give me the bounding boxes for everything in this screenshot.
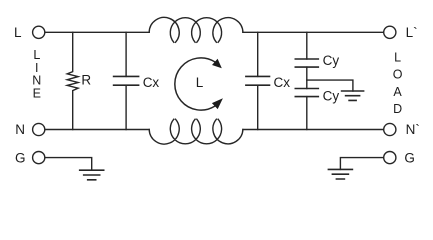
capacitor Cx right leads [257,32,259,129]
terminal G left [33,152,45,164]
choke winding bottom [149,119,243,144]
ground left [80,170,104,180]
terminal L` [384,26,396,38]
capacitor Cy bottom lead [306,97,308,130]
svg-text:D: D [393,102,402,116]
svg-text:L: L [196,75,204,90]
svg-text:Cy: Cy [323,89,340,104]
svg-text:N`: N` [406,122,420,137]
terminal L [33,26,45,38]
flux arrowhead top [212,59,222,69]
terminal G right [384,152,396,164]
flux arrow arc [175,58,215,110]
wire Cy midpoint to ground [307,80,353,91]
svg-text:N: N [15,122,25,137]
ground right [328,169,352,179]
capacitor Cy top plates [295,59,318,67]
wire G left to ground [45,158,91,171]
capacitor Cx right plates [246,76,270,85]
capacitor Cx left plates [114,76,139,85]
svg-text:E: E [33,86,41,100]
resistor R [67,32,78,129]
wire top right [243,31,383,33]
wire bottom left [45,129,149,131]
svg-text:L: L [394,51,401,65]
capacitor Cy top leads [306,32,308,88]
wire bottom right [243,129,383,131]
ground Cy [342,91,364,100]
svg-text:Cx: Cx [143,75,160,90]
svg-text:O: O [393,68,403,82]
terminal N` [384,123,396,135]
wire top left [45,31,149,33]
svg-text:R: R [81,73,91,88]
svg-text:L`: L` [406,25,418,40]
choke winding top [149,17,243,42]
svg-text:L: L [14,25,22,40]
flux arrowhead bottom [212,98,223,109]
terminal N [33,123,45,135]
svg-text:A: A [393,85,402,99]
svg-text:G: G [15,150,26,165]
svg-text:Cy: Cy [323,53,340,68]
capacitor Cx left leads [125,32,127,129]
svg-text:G: G [404,150,415,165]
wire G right to ground [340,158,383,170]
svg-text:Cx: Cx [274,75,291,90]
capacitor Cy bottom plates [295,89,318,97]
